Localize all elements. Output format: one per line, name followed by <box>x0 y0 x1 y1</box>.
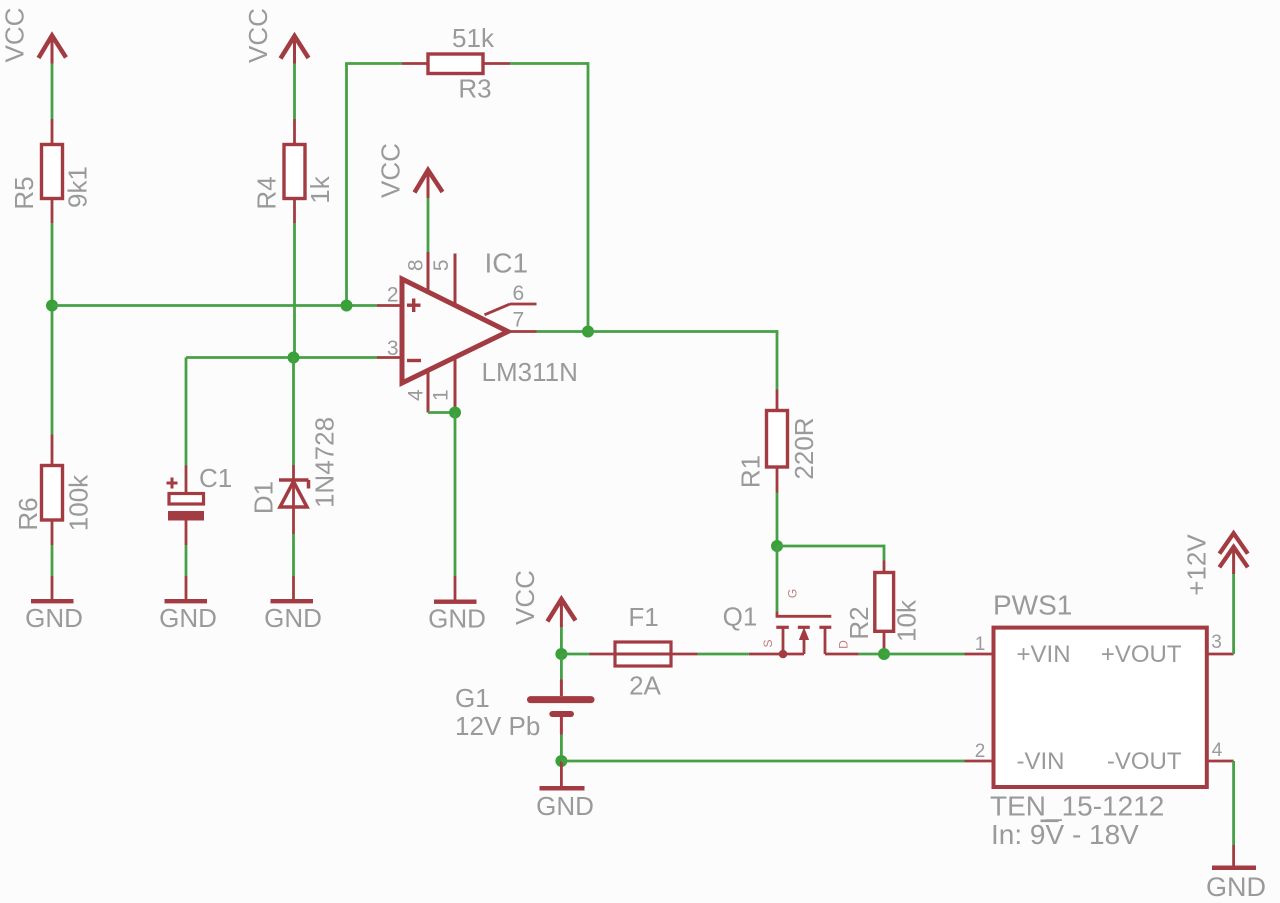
svg-text:LM311N: LM311N <box>482 357 578 387</box>
svg-text:-VOUT: -VOUT <box>1107 748 1182 775</box>
wire Q1 drain to node C <box>859 653 884 656</box>
svg-text:51k: 51k <box>452 23 495 53</box>
svg-text:GND: GND <box>428 604 486 634</box>
wire output to R1 <box>588 330 777 333</box>
wire gate node to R2 <box>777 545 884 548</box>
svg-text:R1: R1 <box>736 455 766 488</box>
wire VCC to R4 <box>293 64 296 120</box>
svg-text:VCC: VCC <box>0 8 30 63</box>
svg-text:D1: D1 <box>249 481 279 514</box>
wire node C to PWS1 pin 1 <box>884 653 965 656</box>
svg-text:G: G <box>786 589 800 598</box>
svg-text:2A: 2A <box>629 671 661 701</box>
wire gate node down to Q1 <box>776 546 779 612</box>
supply VCC (net 1, top-left) <box>0 8 66 64</box>
wire R1 to gate node <box>776 493 779 547</box>
svg-text:VCC: VCC <box>376 143 406 198</box>
zener diode D1 1N4728 <box>249 358 340 535</box>
wire pins 4/1 to junction <box>428 411 455 414</box>
battery G1 12V Pb <box>455 654 591 741</box>
svg-text:3: 3 <box>387 337 399 360</box>
node C junction <box>878 648 890 660</box>
node A junction <box>46 300 58 312</box>
svg-text:7: 7 <box>512 309 524 332</box>
junction at pin2 wire / R3 branch <box>341 300 353 312</box>
node E junction <box>555 755 567 767</box>
svg-text:100k: 100k <box>64 474 94 531</box>
svg-text:R4: R4 <box>252 176 282 209</box>
svg-text:R5: R5 <box>9 176 39 209</box>
ground (under D1) <box>264 576 322 633</box>
node B junction <box>288 352 300 364</box>
resistor R1 220R <box>736 390 820 493</box>
svg-text:12V Pb: 12V Pb <box>455 711 540 741</box>
capacitor C1 (polarized) <box>167 358 233 546</box>
resistor R5 9k1 <box>9 119 93 223</box>
node D junction <box>555 648 567 660</box>
output junction <box>582 326 594 338</box>
wire R6 to ground <box>51 545 54 576</box>
gate node junction <box>771 540 783 552</box>
wire VCC to IC1 pin 8 <box>427 198 430 252</box>
ground (under PWS1 pin 4) <box>1206 845 1266 902</box>
wire junction to ground <box>454 413 457 577</box>
wire PWS1 pin 4 to ground <box>1232 761 1235 845</box>
svg-text:8: 8 <box>404 259 427 271</box>
wire node E to PWS1 pin 2 <box>561 760 964 763</box>
svg-text:D: D <box>837 640 851 649</box>
fuse F1 2A <box>590 602 698 701</box>
supply VCC (above G1) <box>510 570 576 627</box>
ground (under R6) <box>25 576 83 633</box>
junction pins 1/4 <box>449 407 461 419</box>
svg-text:GND: GND <box>1206 872 1266 902</box>
svg-text:F1: F1 <box>628 602 658 632</box>
svg-text:R6: R6 <box>13 497 43 530</box>
svg-text:2: 2 <box>387 284 399 307</box>
svg-text:1: 1 <box>430 389 453 401</box>
svg-text:VCC: VCC <box>243 8 273 63</box>
svg-text:+VOUT: +VOUT <box>1101 641 1182 668</box>
supply VCC (above R4) <box>243 8 309 63</box>
svg-text:9k1: 9k1 <box>63 166 93 208</box>
svg-text:5: 5 <box>430 259 453 271</box>
svg-text:+VIN: +VIN <box>1017 641 1071 668</box>
svg-text:C1: C1 <box>199 463 232 493</box>
svg-text:4: 4 <box>404 389 427 401</box>
supply VCC (above IC1) <box>376 143 443 198</box>
resistor R4 1k <box>252 119 336 223</box>
wire node A down to R6 <box>51 306 54 435</box>
svg-text:G1: G1 <box>455 683 490 713</box>
svg-text:GND: GND <box>25 603 83 633</box>
resistor R6 100k <box>13 435 94 546</box>
svg-text:R3: R3 <box>458 74 491 104</box>
ground (under IC1) <box>428 576 486 634</box>
svg-text:IC1: IC1 <box>485 248 529 279</box>
svg-text:2: 2 <box>975 741 986 762</box>
svg-text:1k: 1k <box>305 175 335 203</box>
wire R5 to node A <box>51 223 54 306</box>
wire C1 to ground <box>185 545 188 576</box>
ground (under C1) <box>159 576 217 633</box>
svg-text:4: 4 <box>1212 740 1223 761</box>
svg-text:S: S <box>761 639 775 647</box>
svg-text:220R: 220R <box>789 417 819 479</box>
svg-text:In: 9V - 18V: In: 9V - 18V <box>991 819 1139 850</box>
resistor R3 51k <box>402 23 510 104</box>
wire VCC to node D <box>560 627 563 654</box>
wire IC1 output pin 7 <box>537 330 589 333</box>
wire node D to F1 <box>561 653 589 656</box>
svg-text:3: 3 <box>1211 632 1222 653</box>
wire F1 to Q1 source <box>698 653 749 656</box>
svg-text:1N4728: 1N4728 <box>310 417 340 508</box>
wire node B to pin 3 of IC1 <box>186 356 377 359</box>
transistor Q1 (n-MOSFET) <box>723 589 859 658</box>
svg-text:TEN_15-1212: TEN_15-1212 <box>990 791 1164 822</box>
svg-text:PWS1: PWS1 <box>993 590 1072 621</box>
wire G1 to node E <box>560 735 563 762</box>
svg-text:GND: GND <box>159 603 217 633</box>
svg-text:+12V: +12V <box>1182 534 1212 596</box>
ground (under G1) <box>536 786 594 821</box>
svg-text:VCC: VCC <box>510 570 540 625</box>
wire node A to pin 2 of IC1 <box>52 304 377 307</box>
svg-text:GND: GND <box>264 603 322 633</box>
svg-text:R2: R2 <box>844 606 874 639</box>
wire R3 feedback left branch <box>345 64 348 306</box>
supply +12V <box>1182 533 1248 654</box>
DC/DC converter PWS1 TEN_15-1212 <box>965 590 1234 851</box>
svg-text:6: 6 <box>512 282 524 305</box>
wire node E to ground <box>560 761 563 786</box>
svg-text:-VIN: -VIN <box>1017 748 1065 775</box>
wire VCC to R5 <box>51 64 54 120</box>
op-amp IC1 LM311N <box>377 248 578 413</box>
svg-text:GND: GND <box>536 791 594 821</box>
svg-text:1: 1 <box>975 634 986 655</box>
svg-text:Q1: Q1 <box>723 602 758 632</box>
wire R4 to node B <box>293 223 296 358</box>
svg-text:10k: 10k <box>892 599 922 642</box>
wire D1 to ground <box>292 534 295 576</box>
resistor R2 10k <box>844 561 922 655</box>
wire R3 right to output node <box>510 62 588 65</box>
